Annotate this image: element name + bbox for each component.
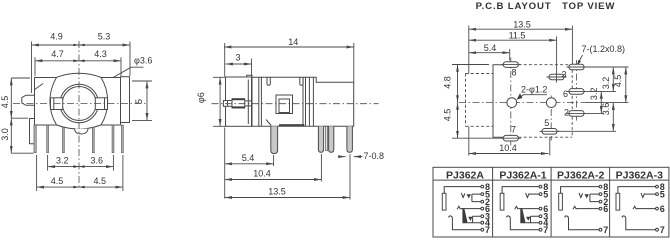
left bracket bbox=[30, 119, 35, 144]
bottom dim 10.4 bbox=[469, 153, 549, 155]
switch contact pins 3-4 bbox=[468, 217, 472, 221]
wire sleeve spring to pin 7 bbox=[449, 216, 481, 230]
dim 4.7/4.3 line bbox=[35, 60, 121, 62]
svg-text:PJ362A: PJ362A bbox=[446, 169, 484, 181]
ring spring + switch contact pins 5-2 bbox=[461, 193, 465, 198]
svg-text:3.6: 3.6 bbox=[601, 103, 611, 116]
outline solid left bbox=[493, 65, 503, 138]
ring spring contact pin 5 bbox=[641, 193, 645, 198]
svg-text:6: 6 bbox=[660, 204, 665, 214]
cell 2 : PJ362A-1 bbox=[500, 182, 548, 235]
tip spring contact pin 6 bbox=[515, 206, 518, 209]
wire sleeve to pin 8 bbox=[618, 187, 656, 194]
wire sleeve spring to pin 7 bbox=[565, 216, 599, 230]
centerlines bbox=[459, 102, 585, 104]
svg-text:2-φ1.2: 2-φ1.2 bbox=[521, 85, 547, 95]
svg-text:4.9: 4.9 bbox=[50, 32, 63, 42]
svg-text:φ3.6: φ3.6 bbox=[134, 56, 152, 66]
left dim 4.8/4.5 bbox=[457, 65, 459, 139]
plug symbol bbox=[520, 208, 525, 223]
svg-text:4.3: 4.3 bbox=[94, 49, 107, 59]
svg-text:5: 5 bbox=[660, 190, 665, 200]
pin number labels bbox=[660, 182, 665, 235]
extensions bbox=[468, 26, 470, 74]
cell 3 : PJ362A-2 bbox=[559, 182, 609, 235]
wire sleeve to pin 8 bbox=[444, 187, 481, 194]
pin terminals 8,5,2,6,7 bbox=[599, 185, 602, 231]
switch contact pins 5-2 bbox=[585, 194, 589, 198]
svg-text:13.5: 13.5 bbox=[268, 187, 286, 197]
svg-text:5.4: 5.4 bbox=[484, 43, 497, 53]
body rectangle bbox=[35, 78, 121, 126]
svg-text:7: 7 bbox=[603, 225, 608, 235]
dim 5.4 bbox=[469, 52, 510, 54]
dim 3.2/3.6 bbox=[48, 166, 114, 168]
switch contact pins 3-4 bbox=[526, 217, 530, 221]
plug symbol bbox=[462, 208, 467, 223]
wire to pin 5 bbox=[645, 193, 656, 195]
svg-text:10.4: 10.4 bbox=[499, 143, 517, 153]
svg-text:3.6: 3.6 bbox=[90, 156, 103, 166]
svg-text:5: 5 bbox=[543, 190, 548, 200]
svg-text:4.5: 4.5 bbox=[94, 176, 107, 186]
svg-text:4.8: 4.8 bbox=[443, 76, 453, 89]
sleeve contact bbox=[442, 193, 446, 210]
wire to pin 6 bbox=[637, 208, 656, 210]
cell 1 : PJ362A bbox=[442, 182, 490, 235]
wire sleeve spring to pin 7 bbox=[507, 216, 539, 230]
ring outer bbox=[60, 84, 99, 123]
pin number labels bbox=[603, 182, 608, 235]
ring inner bbox=[62, 87, 96, 121]
holes 2-phi1.2 bbox=[507, 98, 517, 108]
svg-text:3.2: 3.2 bbox=[601, 77, 611, 90]
left dim 4.5 / 3.0 bbox=[10, 78, 12, 153]
top slots bbox=[267, 77, 270, 85]
thick bottom segment bbox=[279, 124, 304, 126]
svg-text:4.7: 4.7 bbox=[51, 49, 64, 59]
pin terminals 8,5,6,3,4,7 bbox=[539, 185, 542, 231]
svg-text:2: 2 bbox=[564, 107, 569, 117]
svg-text:PJ362A-3: PJ362A-3 bbox=[616, 169, 663, 181]
svg-text:4.5: 4.5 bbox=[51, 176, 64, 186]
svg-text:7: 7 bbox=[511, 125, 516, 135]
dim 3 bbox=[226, 63, 252, 65]
internal verticals bbox=[258, 77, 260, 126]
cell 4 : PJ362A-3 bbox=[616, 182, 665, 235]
pins side view bbox=[271, 126, 278, 153]
svg-text:P.C.B LAYOUT TOP VIEW: P.C.B LAYOUT TOP VIEW bbox=[476, 1, 616, 12]
svg-text:3: 3 bbox=[561, 70, 566, 80]
svg-text:PJ362A-1: PJ362A-1 bbox=[499, 169, 546, 181]
svg-text:11.5: 11.5 bbox=[509, 31, 526, 41]
wire sleeve to pin 8 bbox=[561, 187, 600, 194]
svg-text:4.5: 4.5 bbox=[613, 75, 623, 88]
left tab bbox=[22, 95, 35, 105]
collar bbox=[232, 99, 245, 108]
svg-text:4.5: 4.5 bbox=[443, 109, 453, 122]
wire to pin 5 bbox=[529, 193, 539, 195]
centerline bbox=[212, 103, 379, 105]
dim phi6 bbox=[219, 77, 221, 126]
wire sleeve spring to pin 7 bbox=[622, 216, 656, 230]
svg-text:3: 3 bbox=[235, 53, 240, 63]
svg-text:7-0.8: 7-0.8 bbox=[364, 151, 385, 161]
dim 13.5 bbox=[469, 28, 573, 30]
chamfer bbox=[35, 84, 43, 90]
extension lines top dims bbox=[31, 42, 33, 94]
svg-text:5.4: 5.4 bbox=[242, 153, 255, 163]
svg-text:7: 7 bbox=[485, 225, 490, 235]
bottom bump bbox=[75, 129, 89, 134]
svg-text:3.2: 3.2 bbox=[589, 88, 599, 101]
wire to pin 6 bbox=[518, 208, 539, 210]
ring spring contact pin 5 bbox=[526, 193, 530, 198]
wire sleeve to pin 8 bbox=[502, 187, 539, 194]
pin number labels bbox=[485, 182, 490, 235]
tip pin bbox=[223, 101, 232, 107]
pads bbox=[503, 62, 584, 141]
svg-text:7-(1.2x0.8): 7-(1.2x0.8) bbox=[582, 44, 626, 54]
top lip bbox=[247, 75, 252, 77]
svg-text:5.3: 5.3 bbox=[98, 32, 111, 42]
sleeve contact bbox=[500, 193, 504, 210]
dashed barrel box bbox=[465, 74, 467, 127]
svg-text:φ6: φ6 bbox=[196, 92, 206, 103]
svg-text:7: 7 bbox=[543, 225, 548, 235]
svg-text:5: 5 bbox=[544, 118, 549, 128]
main body outline bbox=[252, 77, 354, 126]
left slot bbox=[51, 98, 63, 110]
svg-text:3.0: 3.0 bbox=[0, 128, 10, 141]
ring spring contact pin 5 bbox=[579, 193, 583, 198]
svg-text:6: 6 bbox=[603, 204, 608, 214]
svg-text:6: 6 bbox=[563, 89, 568, 99]
dim 4.9/5.3 top line bbox=[32, 44, 131, 46]
switch box bbox=[276, 95, 293, 114]
bezel rounded square bbox=[50, 73, 108, 129]
centerlines bbox=[13, 103, 146, 105]
tip spring contact pin 6 bbox=[633, 206, 636, 209]
svg-text:10.4: 10.4 bbox=[253, 169, 271, 179]
pin terminals 8,5,6,7 bbox=[656, 185, 659, 231]
pin terminals 8,5,2,6,3,4,7 bbox=[481, 185, 484, 231]
right dim 5 bbox=[146, 81, 148, 120]
sleeve contact bbox=[559, 193, 563, 210]
dim 14 bbox=[224, 46, 354, 48]
dim 11.5 bbox=[469, 39, 557, 41]
pad ticks bbox=[501, 65, 587, 139]
svg-text:8: 8 bbox=[511, 68, 516, 78]
svg-text:3.2: 3.2 bbox=[56, 156, 69, 166]
sleeve contact bbox=[616, 193, 620, 210]
svg-text:13.5: 13.5 bbox=[513, 20, 531, 30]
right slot bbox=[95, 98, 107, 110]
chamfer near left pin bbox=[266, 120, 271, 126]
tip spring contact pin 6 bbox=[457, 206, 460, 209]
outline dashed top/right/bottom bbox=[519, 64, 573, 66]
tip spring contact pin 6 bbox=[573, 206, 576, 209]
svg-text:4.5: 4.5 bbox=[0, 96, 10, 109]
svg-text:PJ362A-2: PJ362A-2 bbox=[557, 169, 604, 181]
dim 5.4 bbox=[225, 163, 274, 165]
dim 4.5/4.5 bbox=[37, 186, 123, 188]
pin number labels bbox=[543, 182, 548, 235]
wire to pin 6 bbox=[577, 208, 600, 210]
right panel bbox=[121, 77, 130, 123]
dim 13.5 bbox=[225, 197, 350, 199]
right dims bbox=[600, 91, 602, 113]
dim 10.4 bbox=[225, 179, 322, 181]
barrel bbox=[226, 77, 252, 126]
svg-text:7: 7 bbox=[660, 225, 665, 235]
pins front bbox=[34, 125, 36, 153]
svg-text:14: 14 bbox=[288, 37, 298, 47]
